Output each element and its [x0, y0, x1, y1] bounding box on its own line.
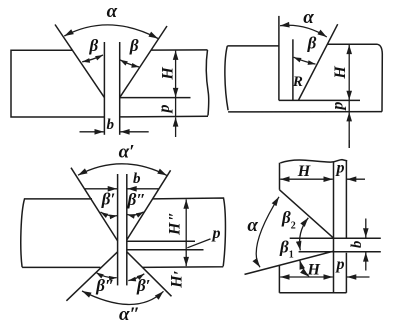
BL lower right bevel: [127, 252, 172, 296]
svg-text:α: α: [247, 215, 258, 236]
svg-text:H: H: [297, 163, 311, 180]
svg-text:β: β: [307, 34, 317, 53]
BL angle alpha-dblprime arc: [82, 291, 164, 304]
BR top edge wavy: [280, 160, 347, 163]
TL dimension p arrow: [175, 117, 177, 137]
svg-text:H: H: [159, 67, 176, 81]
svg-text:β″: β″: [127, 190, 146, 209]
svg-text:α″: α″: [119, 304, 140, 325]
TL plate right wavy edge: [206, 50, 209, 116]
BL leader line p: [187, 239, 210, 248]
svg-text:H: H: [167, 222, 184, 236]
BR right vertical lower: [345, 253, 347, 293]
svg-text:p: p: [211, 225, 221, 242]
TR left plate face vertical: [278, 16, 280, 101]
BL angle beta-dblprime arc upper right: [127, 212, 143, 215]
svg-text:p: p: [335, 256, 345, 273]
svg-text:b: b: [133, 171, 141, 187]
TL right bevel: [120, 26, 167, 98]
BR left edge lower: [278, 265, 280, 293]
BR right vertical upper: [345, 161, 347, 239]
BL angle beta-prime arc lower right: [128, 274, 144, 281]
BL lower root line: [127, 249, 204, 251]
svg-text:α: α: [107, 1, 118, 22]
BR upper bevel: [280, 190, 334, 238]
TR beta reference vertical: [292, 39, 294, 100]
svg-text:p: p: [329, 102, 346, 112]
BL plate left outline: [21, 199, 101, 268]
TL plate left outline: [11, 50, 104, 117]
BL plate right outline: [143, 198, 226, 267]
BL root face left vertical: [117, 174, 119, 285]
svg-text:H: H: [332, 66, 349, 80]
TR root line: [279, 99, 360, 101]
BR dimension p top arrow: [347, 178, 365, 180]
BR dimension b down arrow: [365, 219, 367, 238]
TL dimension H line: [175, 51, 177, 98]
TR dimension p arrow tail stub: [348, 140, 350, 148]
BR oblique lower bevel: [245, 251, 334, 274]
svg-text:α′: α′: [119, 142, 135, 163]
TR dimension p arrow: [348, 112, 350, 148]
TL angle beta arc right: [120, 60, 139, 67]
TR dimension H line: [348, 45, 350, 100]
TR angle beta arc: [294, 57, 316, 64]
svg-text:″: ″: [167, 212, 184, 221]
TL plate right top edge: [151, 49, 208, 51]
BL angle beta-dblprime arc lower left: [96, 273, 117, 278]
TR right plate top edge: [328, 43, 378, 45]
BR angle beta1 arc: [300, 260, 309, 277]
BR angle alpha arc: [256, 197, 279, 267]
TR right plate corner and right edge: [378, 44, 383, 111]
BR dimension p bottom arrow: [347, 276, 370, 278]
svg-text:H: H: [306, 261, 320, 278]
TL angle alpha arc: [64, 25, 158, 39]
svg-text:b: b: [349, 240, 365, 248]
BL angle alpha-prime arc: [78, 164, 167, 176]
BL lower left bevel: [66, 252, 117, 301]
TR angle alpha arc: [280, 25, 327, 37]
BR dimension H bottom line: [280, 276, 333, 278]
TR bottom edge: [228, 111, 382, 113]
BL angle beta-prime arc upper left: [101, 212, 118, 216]
BL dimension b arrow right: [127, 188, 158, 190]
svg-text:α: α: [303, 7, 314, 28]
BR bottom edge: [279, 292, 346, 294]
BL upper left bevel: [71, 168, 118, 241]
BL dimension b arrow left: [85, 188, 117, 190]
svg-text:β′: β′: [101, 190, 116, 209]
TR left plate wavy left edge: [225, 46, 228, 110]
BR groove face left vertical: [333, 162, 335, 293]
TL plate right bottom edge: [120, 115, 208, 118]
TR bevel: [298, 24, 337, 100]
svg-text:p: p: [156, 105, 173, 115]
svg-text:β: β: [129, 36, 139, 55]
svg-text:β′: β′: [136, 276, 151, 295]
BR dimension H top line: [280, 178, 333, 180]
TL dimension b arrow right: [120, 131, 148, 133]
TL dimension b arrow left: [80, 131, 104, 133]
BR web bottom line: [299, 251, 381, 253]
TL angle beta arc left: [82, 55, 103, 62]
BR angle beta2 arc: [300, 218, 309, 251]
svg-text:β: β: [89, 36, 99, 55]
svg-text:p: p: [335, 160, 345, 177]
BR web top line: [290, 237, 381, 239]
svg-text:β″: β″: [95, 276, 114, 295]
TR left plate top edge: [227, 45, 278, 47]
TL left bevel: [55, 25, 104, 98]
svg-text:H: H: [169, 275, 186, 289]
svg-text:R: R: [292, 74, 303, 90]
TL root face right vertical: [119, 42, 121, 135]
BL root face right vertical: [126, 174, 128, 285]
BR left edge upper: [279, 163, 281, 190]
TR dimension p line: [348, 100, 350, 111]
BL upper root line: [127, 240, 195, 242]
TL dimension p line: [175, 98, 177, 117]
BL dimension H line: [185, 199, 187, 266]
TL root line: [120, 97, 191, 99]
BR dimension b up arrow: [365, 252, 367, 270]
svg-text:′: ′: [172, 270, 189, 275]
TL root face left vertical: [103, 42, 105, 135]
svg-text:b: b: [106, 117, 114, 133]
BL upper right bevel: [127, 170, 171, 240]
